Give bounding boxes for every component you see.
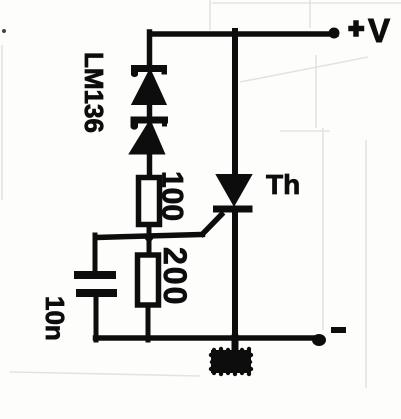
resistor R2: [138, 255, 159, 305]
svg-text:100: 100: [156, 171, 189, 221]
wire left branch from top rail: [147, 32, 153, 69]
node gate junction: [145, 233, 154, 242]
svg-text:200: 200: [157, 247, 193, 306]
node +V terminal: [329, 28, 340, 39]
label minus: [334, 327, 343, 333]
capacitor C1 top plate: [78, 271, 112, 279]
wire capacitor to bottom rail: [94, 293, 99, 340]
diode D1 cathode bar: [135, 65, 164, 72]
svg-text:Th: Th: [266, 169, 300, 200]
wire capacitor branch down: [93, 235, 98, 272]
wire R2 to bottom rail: [146, 306, 151, 340]
diode D1 bar left hook: [131, 66, 138, 77]
wire D2 to R1: [147, 151, 153, 178]
svg-text:V: V: [368, 12, 390, 49]
wire R1 to junction: [147, 228, 152, 252]
wire ground stem: [232, 338, 239, 352]
diode D2: [130, 121, 164, 154]
diode D1 bar right tick: [162, 67, 168, 75]
diode D1: [133, 70, 166, 104]
svg-text:10n: 10n: [40, 296, 70, 341]
wire D1-D2 link: [147, 101, 153, 119]
diode D2 bar left hook: [131, 118, 139, 130]
thyristor Th anode wire: [232, 31, 238, 178]
ground: [209, 347, 253, 376]
label +V plus sign: [351, 23, 362, 34]
thyristor Th cathode bar: [217, 206, 250, 213]
wire bottom rail: [96, 335, 321, 341]
capacitor C1 bottom plate: [80, 289, 113, 297]
wire Th cathode down: [232, 209, 238, 350]
wire gate horizontal: [96, 235, 203, 238]
wire gate diagonal: [203, 215, 222, 235]
node - terminal: [312, 334, 326, 346]
thyristor Th: [217, 175, 251, 205]
wire top rail: [151, 31, 337, 37]
resistor R1: [139, 178, 160, 225]
diode D2 cathode bar: [134, 117, 165, 124]
svg-text:LM136: LM136: [79, 52, 109, 133]
diode D2 bar right tick: [162, 119, 167, 127]
